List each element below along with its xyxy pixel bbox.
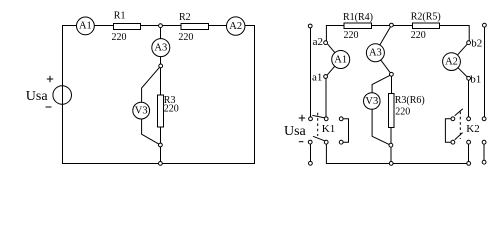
- voltmeter V3: [133, 102, 150, 119]
- join node V3 R3: [159, 143, 163, 147]
- wire K2 right bottom down: [483, 144, 485, 160]
- label K1: [322, 123, 335, 135]
- node on top wire right circuit: [390, 23, 394, 27]
- svg-text:A1: A1: [334, 54, 347, 65]
- svg-text:A1: A1: [79, 21, 92, 32]
- svg-text:220: 220: [112, 32, 127, 43]
- wire R3 to join node to bottom junction: [160, 127, 162, 164]
- terminal a2: [324, 41, 328, 45]
- switch K1 right bracket wire: [343, 119, 348, 142]
- svg-text:A3: A3: [369, 48, 382, 59]
- terminal top of source rail right circuit: [308, 24, 312, 28]
- resistor R3(R6): [388, 94, 394, 128]
- switch K2 linkage dashed: [459, 112, 461, 140]
- negative terminal bottom: [309, 161, 313, 165]
- svg-text:A3: A3: [154, 42, 167, 53]
- label 220 under R2(R5): [411, 30, 426, 41]
- svg-text:A2: A2: [445, 56, 458, 67]
- switch K2 left bracket bottom terminal: [451, 140, 455, 144]
- label Usa: [26, 89, 49, 104]
- switch K2 middle top terminal: [467, 117, 471, 121]
- wire V3 lower branch: [142, 119, 161, 145]
- wire node2 down to R3(R6): [390, 76, 392, 93]
- switch K1 terminal TL: [309, 117, 313, 121]
- svg-text:A2: A2: [229, 21, 242, 32]
- label K2: [466, 123, 479, 135]
- voltage source Usa circle: [53, 86, 72, 105]
- ammeter A2 right circuit: [443, 53, 461, 71]
- label a1: [312, 71, 322, 83]
- resistor R2(R5): [412, 23, 439, 28]
- wire R3(R6) to join node to bottom junction: [390, 128, 392, 164]
- label R1: [114, 10, 126, 21]
- wire source rail right circuit: [309, 28, 311, 117]
- switch K1 terminal TR: [324, 117, 328, 121]
- wire a1 down to switch K1: [325, 78, 327, 117]
- resistor R3: [158, 95, 164, 127]
- svg-text:R3(R6): R3(R6): [395, 95, 425, 106]
- wire ammeter A2 right to b1: [458, 68, 467, 77]
- minus sign of source: [46, 106, 52, 108]
- switch K1 right bracket bottom terminal: [339, 140, 343, 144]
- svg-text:K1: K1: [322, 123, 335, 135]
- label a2: [313, 36, 323, 48]
- terminal b2: [467, 41, 471, 45]
- switch K2 bottom blade: [455, 133, 463, 140]
- svg-text:V3: V3: [365, 96, 378, 107]
- label 220 under R1(R4): [344, 30, 359, 41]
- label 220 under R2: [178, 32, 193, 43]
- terminal top of right rail: [483, 23, 487, 27]
- wire ammeter A1 right to a1: [327, 66, 335, 75]
- switch K1 right bracket top terminal: [339, 117, 343, 121]
- label b1: [470, 73, 481, 85]
- switch K2 left bracket wire: [445, 119, 451, 142]
- label 220 beside R3: [164, 104, 179, 115]
- terminal a1: [324, 75, 328, 79]
- wire left circuit outer loop: [63, 26, 255, 164]
- switch K1 terminal BR: [324, 140, 328, 144]
- wire R2(R5) to corner down to b2: [439, 26, 469, 41]
- label Usa right circuit: [284, 124, 307, 139]
- ammeter A3: [152, 39, 170, 57]
- label R2(R5): [411, 12, 441, 23]
- wire right rail down to K2: [483, 27, 485, 117]
- resistor R1(R4): [344, 23, 372, 28]
- ammeter A1 right circuit: [332, 51, 350, 69]
- wire BL down to negative terminal: [310, 144, 312, 161]
- end terminal of bottom wire: [467, 162, 471, 166]
- wire ammeter A3 right to node2: [381, 60, 391, 73]
- terminal b1: [467, 76, 471, 80]
- svg-text:R1(R4): R1(R4): [343, 12, 373, 23]
- ammeter A2: [227, 17, 245, 35]
- node between R1 and R2: [159, 24, 163, 28]
- label R3(R6): [395, 95, 425, 106]
- switch K2 left bracket top terminal: [451, 117, 455, 121]
- label b2: [471, 37, 482, 49]
- join node right circuit: [389, 143, 393, 147]
- plus sign of source: [47, 76, 53, 82]
- plus sign right circuit: [299, 115, 305, 121]
- terminal at end of right rail bottom: [482, 160, 486, 164]
- wire between R1(R4) and R2(R5): [372, 25, 413, 27]
- svg-text:220: 220: [178, 32, 193, 43]
- svg-text:R2: R2: [179, 12, 191, 23]
- switch K1 top blade: [312, 115, 324, 118]
- svg-text:Usa: Usa: [284, 124, 307, 139]
- svg-text:K2: K2: [466, 123, 479, 135]
- ammeter A1: [77, 17, 95, 35]
- switch K2 right top terminal: [482, 117, 486, 121]
- svg-text:V3: V3: [135, 105, 148, 116]
- wire node to ammeter A3 right: [380, 27, 391, 45]
- wire a2 to ammeter A1 right: [328, 44, 335, 53]
- wire b2 to ammeter A2 right: [458, 44, 468, 55]
- svg-text:b1: b1: [470, 73, 481, 85]
- switch K2 right bottom terminal: [482, 140, 486, 144]
- svg-text:a2: a2: [313, 36, 323, 48]
- svg-text:b2: b2: [471, 37, 482, 49]
- wire K2 middle bottom to bottom wire end: [468, 144, 470, 161]
- node2 right circuit: [390, 72, 394, 76]
- wire top left corner to a2 and to R1(R4): [326, 26, 344, 41]
- label R3: [164, 95, 176, 106]
- minus sign right circuit: [299, 141, 304, 143]
- wire V3 right upper branch: [372, 75, 390, 93]
- switch K1 terminal BL: [308, 140, 312, 144]
- svg-text:Usa: Usa: [26, 89, 49, 104]
- node below A3: [159, 64, 163, 68]
- switch K2 top blade: [455, 109, 463, 116]
- svg-text:R2(R5): R2(R5): [411, 12, 441, 23]
- switch K2 middle bottom terminal: [467, 140, 471, 144]
- wire BR down and bottom wire right circuit: [326, 144, 467, 163]
- svg-text:a1: a1: [312, 71, 322, 83]
- junction node bottom wire right circuit: [389, 162, 393, 166]
- svg-text:220: 220: [164, 104, 179, 115]
- svg-text:220: 220: [395, 106, 410, 117]
- svg-text:220: 220: [344, 30, 359, 41]
- wire node1 to A3 to node2 to R3: [160, 26, 162, 96]
- junction node on bottom wire: [159, 162, 163, 166]
- resistor R2: [181, 24, 209, 30]
- wire V3 right lower branch: [372, 109, 389, 144]
- wire b1 down to switch K2: [468, 80, 470, 117]
- svg-text:R1: R1: [114, 10, 126, 21]
- label R2: [179, 12, 191, 23]
- voltmeter V3 right circuit: [364, 93, 381, 110]
- switch K1 bottom blade: [313, 136, 325, 141]
- switch K1 linkage dashed: [317, 113, 319, 136]
- label 220 under R1: [112, 32, 127, 43]
- resistor R1: [114, 24, 141, 30]
- svg-text:220: 220: [411, 30, 426, 41]
- wire V3 upper branch: [142, 66, 161, 103]
- label 220 beside R3(R6): [395, 106, 410, 117]
- ammeter A3 right circuit: [366, 44, 384, 62]
- label R1(R4): [343, 12, 373, 23]
